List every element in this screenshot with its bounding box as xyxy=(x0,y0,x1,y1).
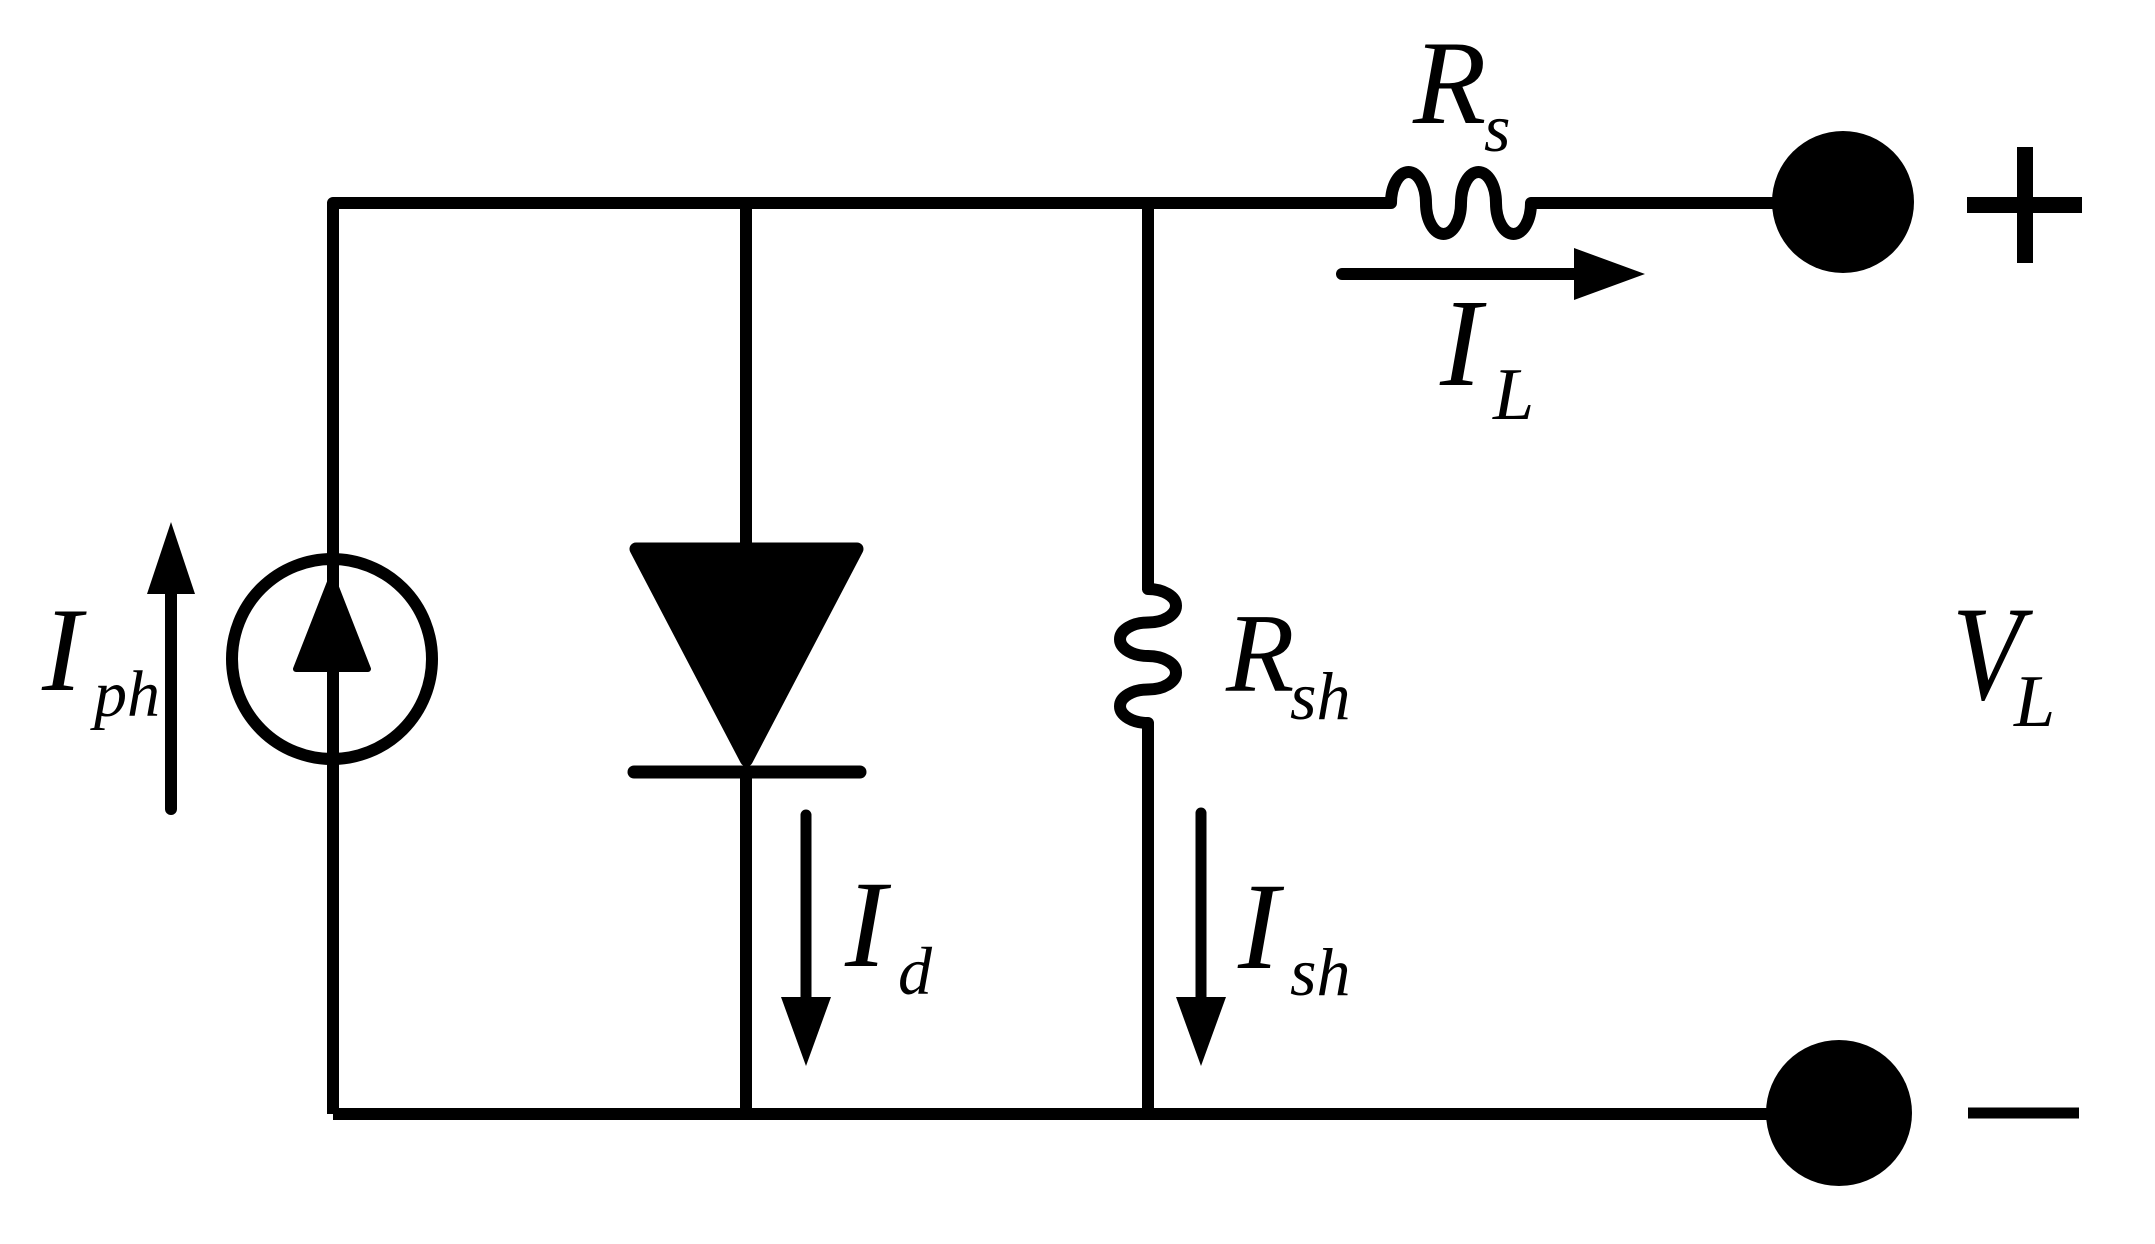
svg-text:s: s xyxy=(1484,90,1510,166)
wire diode branch lower xyxy=(740,772,752,1114)
svg-text:I: I xyxy=(1439,275,1487,413)
diode D anode triangle xyxy=(636,549,857,760)
svg-text:sh: sh xyxy=(1290,658,1350,734)
svg-text:ph: ph xyxy=(90,658,160,731)
resistor Rsh squiggle xyxy=(1120,589,1176,723)
wire bottom rail xyxy=(333,1108,1839,1120)
svg-text:I: I xyxy=(844,856,892,993)
current source Iph circle xyxy=(232,559,432,759)
terminal plus dot xyxy=(1772,131,1914,273)
arrow Iph (up) xyxy=(147,522,195,809)
svg-text:sh: sh xyxy=(1290,934,1350,1010)
svg-text:L: L xyxy=(2013,661,2055,743)
wire Rsh branch upper xyxy=(1142,197,1154,590)
minus sign xyxy=(1968,1108,2079,1119)
arrow Id (down) xyxy=(781,815,831,1066)
arrow Ish (down) xyxy=(1176,813,1226,1066)
wire top rail left xyxy=(333,203,1391,1114)
svg-text:R: R xyxy=(1225,592,1294,716)
arrow IL (right) xyxy=(1342,248,1645,300)
wire diode branch upper xyxy=(740,197,752,549)
terminal minus dot xyxy=(1766,1040,1912,1186)
svg-text:I: I xyxy=(1237,858,1285,995)
svg-text:I: I xyxy=(41,583,87,716)
wire Rsh branch lower xyxy=(1142,723,1154,1114)
wire top rail right xyxy=(1531,197,1843,209)
svg-text:d: d xyxy=(898,933,933,1009)
svg-text:L: L xyxy=(1492,354,1534,436)
diode D cathode bar xyxy=(634,766,860,779)
svg-text:R: R xyxy=(1412,16,1486,149)
current source Iph arrow xyxy=(296,577,368,669)
resistor Rs squiggle xyxy=(1391,172,1531,234)
plus sign xyxy=(1967,147,2082,263)
